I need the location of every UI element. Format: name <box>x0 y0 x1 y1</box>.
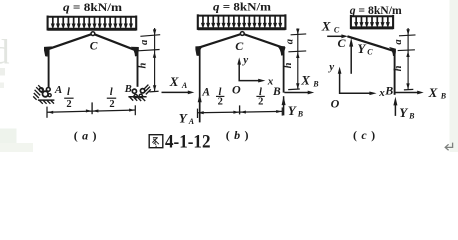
svg-text:X: X <box>428 85 438 100</box>
right column B (a) <box>137 48 139 87</box>
svg-text:A: A <box>54 84 62 96</box>
svg-text:y: y <box>241 54 248 66</box>
dimension a & h line + ticks (b) <box>288 28 306 89</box>
rafter CB (c) <box>347 36 393 51</box>
svg-text:(b): (b) <box>226 128 253 142</box>
svg-text:Y: Y <box>357 41 366 56</box>
distributed load q band (c) <box>351 15 393 29</box>
dimension l/2 left (b) <box>216 87 224 108</box>
knee haunch right (b) <box>277 46 285 56</box>
dimension l/2 left (a) <box>64 87 73 110</box>
svg-text:q = 8kN/m: q = 8kN/m <box>213 0 271 14</box>
knee haunch right (a) <box>131 47 139 57</box>
figure caption: hanzi TU (drawn strokes) <box>149 135 163 148</box>
svg-text:a: a <box>139 40 150 45</box>
force XC arrow at C (c) <box>327 34 348 38</box>
svg-text:X: X <box>321 19 331 34</box>
svg-text:Y: Y <box>399 105 408 120</box>
knee haunch left (b) <box>195 46 203 56</box>
svg-text:l: l <box>67 87 70 98</box>
svg-text:d: d <box>0 33 10 72</box>
svg-text:h: h <box>393 65 404 71</box>
hinge circle C (a) <box>91 32 95 36</box>
force XB arrow (c) <box>395 91 423 95</box>
distributed load q band (a) <box>48 16 137 31</box>
svg-text:q = 8kN/m: q = 8kN/m <box>63 0 122 14</box>
svg-text:2: 2 <box>258 97 263 108</box>
svg-text:4-1-12: 4-1-12 <box>165 133 211 152</box>
svg-text:Y: Y <box>288 103 297 118</box>
dimension l/2 right (b) <box>256 87 264 108</box>
svg-text:l: l <box>110 87 113 98</box>
svg-text:x: x <box>378 87 385 99</box>
svg-text:a: a <box>393 39 404 44</box>
svg-text:X: X <box>169 74 179 89</box>
knee haunch (c) <box>389 47 396 56</box>
force YC arrow at C (c) <box>350 43 352 74</box>
svg-text:y: y <box>327 61 334 73</box>
hinge circle C (b) <box>240 32 244 36</box>
column B (c) <box>394 50 396 95</box>
svg-text:2: 2 <box>109 99 114 110</box>
svg-text:B: B <box>124 84 132 95</box>
svg-text:C: C <box>334 25 340 34</box>
rafters meeting at hinge C (a) <box>44 34 136 51</box>
svg-text:2: 2 <box>66 99 71 110</box>
right column (b) <box>283 47 285 92</box>
reaction XB arrow (b) <box>284 91 314 95</box>
YB shaft (b) <box>283 96 285 115</box>
svg-text:O: O <box>331 96 340 110</box>
svg-text:h: h <box>283 62 294 68</box>
svg-text:A: A <box>181 81 188 90</box>
svg-text:A: A <box>188 117 195 126</box>
reaction XA arrow (b) <box>162 91 195 95</box>
svg-text:2: 2 <box>218 97 223 108</box>
dimension a & h vertical line + ticks (a) <box>138 28 160 92</box>
svg-text:A: A <box>201 86 210 98</box>
svg-text:B: B <box>408 112 415 121</box>
axes O-xy (c) <box>338 67 377 96</box>
reaction YA arrowhead (b) <box>198 93 202 102</box>
force YB arrow (c) <box>394 102 396 116</box>
support B: pin + hatched wall + ground (a) <box>128 85 150 101</box>
svg-text:h: h <box>138 63 149 69</box>
svg-text:B: B <box>440 92 447 101</box>
svg-text:B: B <box>312 79 319 88</box>
svg-text:C: C <box>90 41 98 53</box>
axes O-xy (b) <box>237 57 265 82</box>
scan artifact: return mark <box>445 143 452 151</box>
svg-text:C: C <box>337 36 346 50</box>
scan artifact: bottom-left pale patch <box>0 129 17 153</box>
left column AC (a) <box>48 48 50 91</box>
distributed load q band (b) <box>198 14 286 30</box>
bottom dimension line with end ticks (a) <box>47 102 135 117</box>
svg-text:(a): (a) <box>74 128 101 142</box>
dimension a & h line + ticks (c) <box>398 28 416 90</box>
dimension l/2 right (a) <box>107 87 116 110</box>
svg-text:B: B <box>297 110 304 119</box>
svg-text:q = 8kN/m: q = 8kN/m <box>350 3 402 17</box>
svg-text:X: X <box>300 73 310 88</box>
svg-text:O: O <box>232 82 241 96</box>
svg-text:(c): (c) <box>353 128 380 142</box>
svg-text:Y: Y <box>179 110 188 125</box>
svg-text:C: C <box>367 48 373 57</box>
rafters meeting at hinge C (b) <box>196 34 285 49</box>
bottom dimension line (b) <box>198 105 283 118</box>
svg-text:C: C <box>235 39 244 53</box>
reaction YB arrowhead (b) <box>282 96 286 105</box>
svg-text:B: B <box>384 84 393 98</box>
scan artifact: right pale strip <box>450 0 458 152</box>
support A: pin + hatched wall + ground (a) <box>33 85 54 104</box>
svg-text:a: a <box>285 39 296 44</box>
svg-text:B: B <box>272 86 281 98</box>
knee haunch left (a) <box>44 46 52 56</box>
left column + YA shaft (b) <box>199 47 201 123</box>
